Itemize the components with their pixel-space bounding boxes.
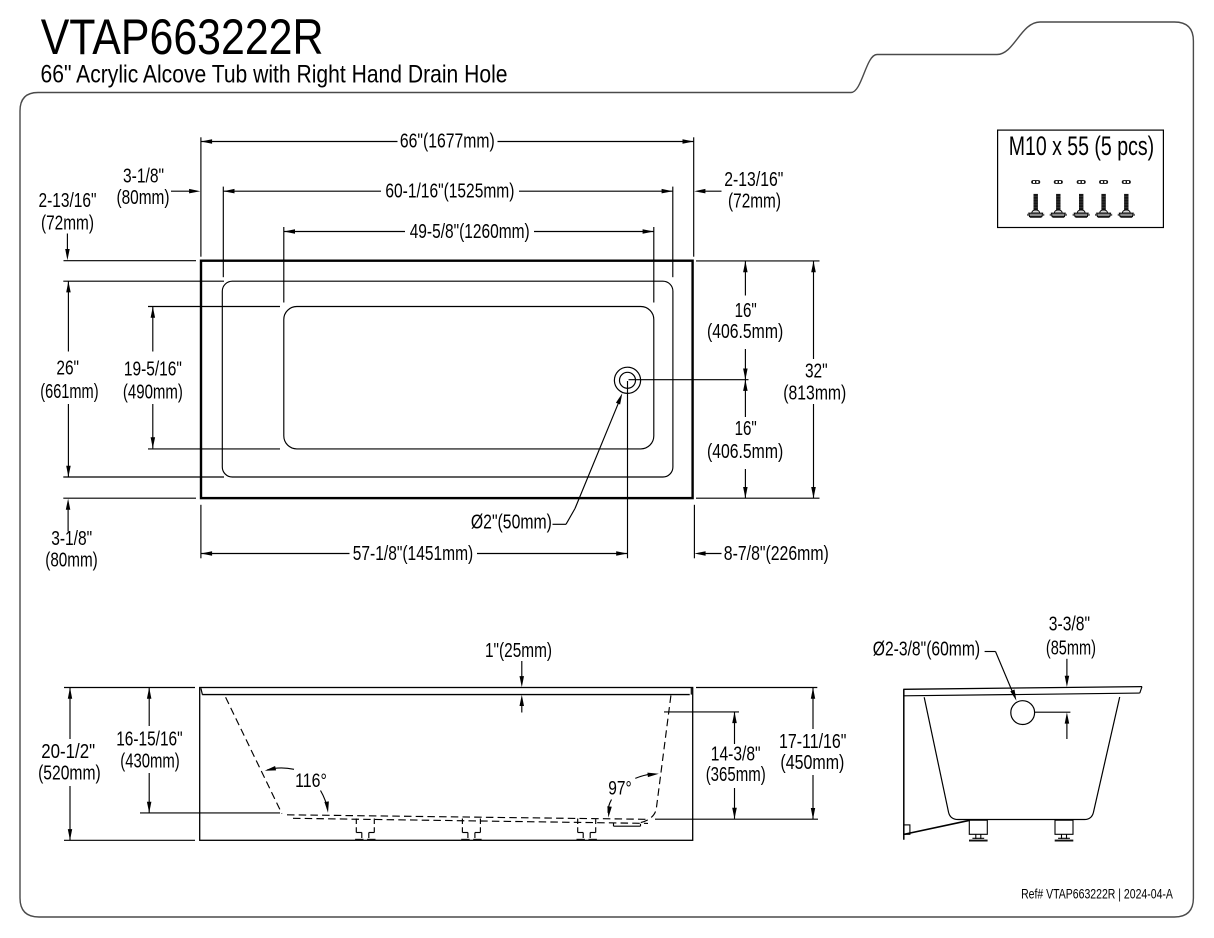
bolt 4 top view <box>1099 180 1108 184</box>
svg-text:3-3/8": 3-3/8" <box>1049 614 1090 636</box>
extension line inner rim top left <box>63 280 224 282</box>
extension line inner rim bottom left <box>63 476 224 478</box>
top view: inner rim rounded rectangle <box>222 281 673 477</box>
side view: interior floor upper dashed <box>287 815 648 820</box>
svg-text:20-1/2": 20-1/2" <box>41 741 95 763</box>
drain leader Ø2-3/8in line and arrow <box>985 651 996 653</box>
svg-text:VTAP663222R: VTAP663222R <box>41 8 324 65</box>
dimension 14-3/8in(365mm) line <box>734 712 736 744</box>
bolt 1 top view <box>1031 180 1040 184</box>
svg-text:2-13/16": 2-13/16" <box>39 190 97 212</box>
dimension 16-15/16in(430mm) line <box>148 688 150 727</box>
side view: deck underside line <box>202 694 690 696</box>
extension line drain offset right down <box>693 505 695 559</box>
svg-text:(365mm): (365mm) <box>706 764 766 786</box>
svg-text:(72mm): (72mm) <box>728 191 781 213</box>
svg-text:(80mm): (80mm) <box>45 550 98 572</box>
svg-text:32": 32" <box>805 360 828 382</box>
svg-text:(406.5mm): (406.5mm) <box>707 321 783 343</box>
svg-text:8-7/8"(226mm): 8-7/8"(226mm) <box>724 543 829 565</box>
svg-text:19-5/16": 19-5/16" <box>124 359 182 381</box>
end view: deck right cap <box>1140 687 1142 694</box>
side view foot 1 pads <box>355 839 363 841</box>
extension line tub left edge down <box>200 505 202 559</box>
svg-text:49-5/8"(1260mm): 49-5/8"(1260mm) <box>410 221 530 243</box>
extension line bottom-rect bottom left <box>148 448 280 450</box>
side view foot 1 dashed bracket <box>355 819 357 833</box>
svg-text:3-1/8": 3-1/8" <box>123 165 164 187</box>
end view: deck bottom line <box>903 693 1140 696</box>
bolt 2 top view <box>1054 180 1063 184</box>
extension line side-view bottom left <box>64 839 195 841</box>
svg-text:116°: 116° <box>295 770 327 792</box>
extension line tub interior floor left <box>140 812 280 814</box>
extension line inner rim left up <box>222 187 224 278</box>
dimension 16in(406.5mm) upper line <box>744 261 746 296</box>
extension line inner rim right up <box>672 187 674 278</box>
svg-text:(85mm): (85mm) <box>1046 638 1096 660</box>
extension line tub top edge left <box>64 260 197 262</box>
end view: apron notch rect <box>904 825 910 834</box>
dimension 16in(406.5mm) lower line <box>744 380 746 417</box>
svg-text:(661mm): (661mm) <box>40 381 98 403</box>
dimension 1in(25mm) arrows <box>521 661 523 683</box>
side view: interior floor lower dashed <box>293 818 648 823</box>
drain leader line and arrow <box>553 523 567 525</box>
side view foot 3 pads <box>577 839 585 841</box>
extension line tub left edge up <box>200 137 202 256</box>
end view: tub body trapezoid <box>924 697 1119 820</box>
extension line tub bottom-rect left up <box>283 227 285 303</box>
dimension 66in(1677mm) line <box>201 141 398 143</box>
extension line deck top right <box>696 687 817 689</box>
svg-text:(406.5mm): (406.5mm) <box>707 441 783 463</box>
end view foot 1 <box>969 820 987 834</box>
angle 116 deg leader arrows <box>267 768 294 770</box>
side view: deck left step <box>201 688 203 694</box>
dimension 17-11/16in(450mm) line <box>812 688 814 730</box>
extension line tub bottom edge right <box>696 497 820 499</box>
extension line tub bottom-rect right up <box>653 227 655 303</box>
svg-text:57-1/8"(1451mm): 57-1/8"(1451mm) <box>353 543 474 565</box>
svg-text:14-3/8": 14-3/8" <box>711 744 761 766</box>
svg-text:97°: 97° <box>608 778 631 800</box>
side view: drain recess outline <box>613 823 615 826</box>
end view: drain centerline right <box>1035 711 1071 713</box>
dimension 8-7/8in(226mm) arrow <box>699 553 722 555</box>
svg-text:Ø2"(50mm): Ø2"(50mm) <box>471 511 552 533</box>
end view foot 2 <box>1055 820 1073 834</box>
side view: interior left slope dashed <box>226 697 282 813</box>
dimension 3-1/8in(80mm) bottom-left arrow <box>67 503 69 532</box>
extension line side-view top left <box>64 687 195 689</box>
dimension 2-13/16in(72mm) top-left arrow <box>66 234 68 257</box>
bolt 3 top view <box>1077 180 1086 184</box>
dimension 3-3/8in(85mm) arrows <box>1066 659 1068 683</box>
dimension 20-1/2in(520mm) line <box>69 688 71 740</box>
extension line bottom-rect top left <box>148 306 280 308</box>
angle 97 deg leader arrows <box>635 774 652 778</box>
bolt 3 side view <box>1079 194 1083 211</box>
bolt 5 side view <box>1124 194 1128 211</box>
svg-text:60-1/16"(1525mm): 60-1/16"(1525mm) <box>385 181 514 203</box>
svg-text:Ø2-3/8"(60mm): Ø2-3/8"(60mm) <box>873 639 980 661</box>
top view: tub bottom rounded rectangle <box>284 307 654 449</box>
svg-text:(430mm): (430mm) <box>120 751 180 773</box>
dimension 49-5/8in(1260mm) line <box>284 231 405 233</box>
svg-text:(450mm): (450mm) <box>780 752 844 774</box>
bolt 4 side view <box>1101 194 1105 211</box>
extension line floor right <box>655 818 818 820</box>
dimension 2-13/16in(72mm) top-right arrow <box>699 190 722 192</box>
svg-text:(80mm): (80mm) <box>117 187 170 209</box>
extension line tub top edge right <box>696 260 820 262</box>
bolt 2 side view <box>1056 194 1060 211</box>
end view: front left edge <box>903 689 905 840</box>
top view: drain hole inner circle <box>620 372 636 388</box>
svg-text:66"(1677mm): 66"(1677mm) <box>400 130 495 152</box>
end view: deck top line <box>903 687 1142 690</box>
svg-text:Ref# VTAP663222R | 2024-04-A: Ref# VTAP663222R | 2024-04-A <box>1021 886 1173 902</box>
top view: tub outer rectangle <box>201 261 693 498</box>
extension line interior rim right <box>664 711 739 713</box>
svg-text:3-1/8": 3-1/8" <box>51 528 92 550</box>
extension line tub bottom edge left <box>63 497 196 499</box>
side view foot 3 dashed bracket <box>577 819 579 833</box>
extension line drain centerline right <box>629 379 749 381</box>
svg-text:M10 x 55 (5 pcs): M10 x 55 (5 pcs) <box>1009 131 1154 161</box>
svg-text:(490mm): (490mm) <box>123 382 183 404</box>
dimension 26in(661mm) line <box>67 281 69 351</box>
svg-text:1"(25mm): 1"(25mm) <box>485 640 552 662</box>
dimension 60-1/16in(1525mm) line <box>223 190 381 192</box>
svg-text:26": 26" <box>56 358 79 380</box>
svg-text:(72mm): (72mm) <box>41 212 94 234</box>
side view foot 2 pads <box>461 839 469 841</box>
svg-text:2-13/16": 2-13/16" <box>724 169 783 191</box>
svg-text:(520mm): (520mm) <box>38 763 101 785</box>
extension line tub right edge up <box>693 137 695 256</box>
svg-text:(813mm): (813mm) <box>783 382 846 404</box>
side view: interior right slope dashed <box>640 696 671 823</box>
side view: deck right step <box>690 688 692 695</box>
bolt 5 top view <box>1122 180 1131 184</box>
svg-text:66" Acrylic Alcove Tub with Ri: 66" Acrylic Alcove Tub with Right Hand D… <box>41 61 508 89</box>
hardware box M10 x 55 <box>998 130 1164 227</box>
svg-text:16": 16" <box>735 300 757 322</box>
svg-text:16-15/16": 16-15/16" <box>116 729 182 751</box>
svg-text:16": 16" <box>735 418 757 440</box>
extension line drain center down <box>627 381 629 558</box>
end view: apron diagonal <box>904 820 970 834</box>
dimension 57-1/8in(1451mm) line <box>201 553 350 555</box>
side view: tub outline <box>200 688 693 841</box>
dimension 19-5/16in(490mm) line <box>152 307 154 352</box>
svg-text:17-11/16": 17-11/16" <box>779 731 847 753</box>
end view: drain hole circle <box>1011 701 1035 725</box>
dimension 3-1/8in(80mm) top-left arrow <box>171 190 196 192</box>
bolt 1 side view <box>1034 194 1038 211</box>
top view: drain hole outer circle <box>614 367 640 393</box>
side view foot 2 dashed bracket <box>461 819 463 833</box>
dimension 32in(813mm) line <box>813 261 815 359</box>
